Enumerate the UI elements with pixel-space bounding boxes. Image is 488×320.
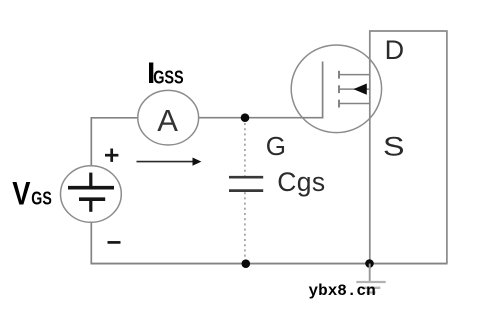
junction dot: source line to bottom rail [365,259,374,268]
svg-text:D: D [385,35,405,65]
svg-text:GSS: GSS [153,66,184,87]
node G junction dot [241,113,250,122]
ground stem [369,264,371,282]
dotted wire: node G down to Cgs top [244,123,246,176]
transistor Q1 channel bars [338,71,340,108]
wire: top horizontal to ammeter [91,117,139,119]
svg-text:Cgs: Cgs [277,167,325,197]
svg-text:A: A [157,103,178,138]
wire: ammeter to gate [199,117,323,119]
svg-text:GS: GS [31,188,52,209]
capacitor Cgs top plate [229,176,263,179]
junction dot: dotted wire to bottom rail [242,259,251,268]
minus sign [108,241,121,244]
transistor Q1 drain/source/body segments [340,75,371,104]
ground bar 1 [356,281,385,283]
plus sign [105,149,118,162]
current direction arrow [137,158,202,166]
wire: VGS bottom to bottom rail [90,222,92,264]
transistor Q1 gate electrode [322,62,324,119]
wire: D-S shorting loop (right rectangle) [370,31,447,264]
voltage source VGS circle [61,166,122,223]
transistor Q1 body circle [291,45,381,133]
svg-text:G: G [266,131,286,161]
ground bar 3 [367,291,376,293]
ammeter A circle [138,90,199,145]
ground bar 2 [362,287,381,289]
svg-text:S: S [383,132,405,162]
capacitor Cgs bottom plate [229,189,263,192]
wire: VGS top to corner [90,118,92,166]
transistor Q1 body arrow [353,84,366,95]
dotted wire: Cgs bottom to bottom rail [244,192,246,259]
svg-text:V: V [12,176,31,212]
battery symbol inside VGS [68,173,114,212]
svg-text:ybx8.cn: ybx8.cn [309,282,376,300]
wire: bottom rail [91,263,448,265]
